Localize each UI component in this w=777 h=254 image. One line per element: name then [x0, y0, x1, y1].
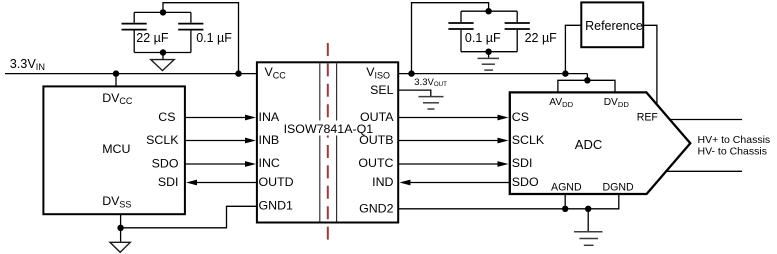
wire ADC SDO to IND — [406, 182, 510, 184]
svg-text:IND: IND — [372, 175, 393, 189]
ADC body (pentagon) — [510, 92, 691, 194]
svg-text:AGND: AGND — [551, 181, 582, 193]
svg-text:MCU: MCU — [102, 142, 130, 156]
junction dot left caps top — [160, 9, 166, 15]
wire right caps bottom rail — [461, 51, 517, 53]
ground (earth, output caps) — [478, 58, 500, 70]
capacitor 22 uF (output) — [505, 11, 530, 52]
junction dot at bus — [584, 77, 590, 83]
wire SEL to ground — [398, 90, 431, 96]
isolator ISOW7841A-Q1 body — [257, 62, 398, 222]
MCU U1 — [43, 86, 185, 214]
junction dot ground stub — [585, 206, 591, 212]
svg-text:SCLK: SCLK — [512, 133, 545, 147]
svg-text:REF: REF — [637, 112, 659, 124]
wire to Reference input — [565, 25, 581, 73]
junction dot on 3.3VIN rail at DVCC branch — [113, 70, 119, 76]
wire DVSS down — [120, 214, 122, 241]
capacitor 22 uF (input) — [122, 12, 147, 52]
svg-text:INB: INB — [259, 133, 280, 147]
wire left caps top rail — [134, 11, 191, 13]
svg-text:Reference: Reference — [585, 19, 643, 33]
wire HV+ input — [670, 119, 742, 121]
svg-text:SDI: SDI — [512, 156, 533, 170]
wire HV- input — [666, 170, 742, 172]
wire SCLK to INB — [185, 140, 249, 142]
svg-text:SDO: SDO — [152, 157, 179, 171]
wire from rail up to left cap network — [163, 3, 239, 74]
svg-text:OUTB: OUTB — [359, 133, 393, 147]
wire GND2 to ADC grounds — [398, 195, 619, 209]
wire right caps top rail — [461, 10, 517, 12]
junction dot right caps top — [485, 8, 491, 14]
wire SDO to INC — [185, 163, 249, 165]
svg-text:SDI: SDI — [158, 175, 179, 189]
svg-text:DVDD: DVDD — [604, 97, 630, 109]
junction dot VISO at cap branch — [408, 70, 414, 76]
wire DVCC stub — [115, 74, 117, 87]
svg-text:0.1 µF: 0.1 µF — [465, 31, 501, 45]
junction dot at Reference branch — [562, 70, 568, 76]
wire AVDD/DVDD bus — [558, 80, 615, 93]
isolation barrier inner line right — [336, 63, 338, 221]
device label background — [283, 121, 375, 136]
svg-text:22 µF: 22 µF — [525, 31, 558, 45]
capacitor 0.1 uF (output) — [448, 11, 473, 52]
svg-text:HV- to Chassis: HV- to Chassis — [698, 146, 767, 158]
svg-text:HV+ to Chassis: HV+ to Chassis — [698, 134, 771, 146]
ground (earth, secondary) — [574, 232, 602, 246]
junction dot left caps bottom — [160, 49, 166, 55]
svg-text:SCLK: SCLK — [146, 133, 179, 147]
junction dot AGND — [562, 206, 568, 212]
wire to output cap ground — [488, 52, 490, 58]
wire OUTB to ADC SCLK — [398, 140, 501, 142]
junction dot on 3.3VIN rail at bypass-cap branch — [235, 70, 241, 76]
isolation barrier inner line left — [319, 63, 321, 221]
svg-text:CS: CS — [158, 110, 175, 124]
wire VISO rail — [398, 73, 587, 75]
wire 3.3VIN rail — [5, 73, 257, 75]
wire OUTC to ADC SDI — [398, 163, 501, 165]
capacitor 0.1 uF (input) — [178, 12, 203, 52]
svg-text:INA: INA — [259, 110, 280, 124]
svg-text:INC: INC — [259, 156, 280, 170]
wire OUTD to SDI — [193, 182, 257, 184]
svg-text:22 µF: 22 µF — [136, 31, 169, 45]
svg-text:GND2: GND2 — [359, 202, 394, 216]
svg-text:GND1: GND1 — [259, 199, 294, 213]
ground (triangle, input side) — [151, 60, 174, 71]
svg-text:OUTC: OUTC — [358, 156, 393, 170]
junction dot DVSS — [117, 225, 123, 231]
ground (triangle, MCU) — [110, 242, 130, 252]
svg-text:CS: CS — [512, 110, 529, 124]
voltage reference — [581, 2, 643, 47]
wire to input ground — [162, 53, 164, 60]
ground (earth, SEL) — [419, 97, 444, 109]
svg-text:0.1 µF: 0.1 µF — [196, 31, 232, 45]
svg-text:OUTD: OUTD — [259, 175, 294, 189]
wire VISO rail to AVDD/DVDD bus — [586, 74, 588, 81]
svg-text:ADC: ADC — [575, 137, 602, 152]
wire CS to INA — [185, 117, 249, 119]
wire OUTA to ADC CS — [398, 117, 501, 119]
wire from rail up to right cap network — [412, 3, 489, 74]
svg-text:AVDD: AVDD — [549, 97, 573, 109]
wire AGND stub — [564, 195, 566, 209]
svg-text:OUTA: OUTA — [360, 110, 394, 124]
wire Reference output to REF — [643, 25, 657, 105]
isolation barrier red dashed line — [327, 43, 329, 241]
wire left caps bottom rail — [134, 52, 191, 54]
svg-text:DGND: DGND — [603, 181, 635, 193]
junction dot right caps bottom — [485, 49, 491, 55]
svg-text:SEL: SEL — [370, 83, 394, 97]
svg-text:SDO: SDO — [512, 175, 539, 189]
wire to secondary ground — [587, 209, 589, 231]
wire DVSS to GND1 — [121, 206, 257, 228]
